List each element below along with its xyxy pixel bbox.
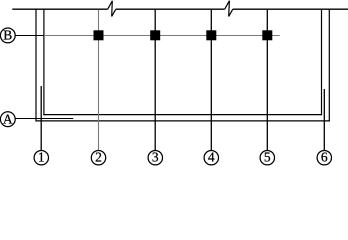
break symbol 1 xyxy=(108,1,116,17)
svg-text:6: 6 xyxy=(321,150,328,165)
grid line 4 xyxy=(210,10,212,151)
svg-text:1: 1 xyxy=(38,150,45,165)
wall left inner line xyxy=(43,9,45,116)
grid line 1 xyxy=(40,86,42,151)
wire top edge segment 2 xyxy=(116,8,225,10)
axis bubble 4 xyxy=(204,150,218,165)
grid line 5 xyxy=(266,10,268,151)
column at B5 xyxy=(262,30,272,40)
column at B2 xyxy=(94,30,104,40)
wall left outer line xyxy=(35,9,37,122)
svg-text:B: B xyxy=(3,27,12,42)
break symbol 2 xyxy=(225,1,233,17)
svg-text:2: 2 xyxy=(95,150,102,165)
svg-text:3: 3 xyxy=(152,150,159,165)
column at B3 xyxy=(150,30,160,40)
axis bubble 5 xyxy=(260,150,274,165)
column at B4 xyxy=(206,30,216,40)
grid line 3 xyxy=(154,10,156,151)
axis bubble 3 xyxy=(148,150,162,165)
wall right outer line xyxy=(328,9,330,122)
wire top edge segment 3 xyxy=(233,8,348,10)
axis B line black stub xyxy=(15,35,44,37)
axis bubble 1 xyxy=(34,150,48,165)
axis bubble B xyxy=(0,27,15,42)
svg-text:4: 4 xyxy=(208,150,215,165)
axis A line xyxy=(15,118,73,120)
axis bubble 6 xyxy=(317,150,331,165)
wall bottom outer line xyxy=(35,120,330,122)
wall bottom inner line xyxy=(43,114,322,116)
axis B line gray xyxy=(44,35,280,37)
axis bubble 2 xyxy=(91,150,105,165)
grid line 2 (gray) xyxy=(98,10,100,151)
wire top edge segment 1 xyxy=(12,8,107,10)
svg-text:5: 5 xyxy=(264,150,271,165)
wall right inner line xyxy=(321,9,323,116)
grid line 6 xyxy=(323,89,325,151)
svg-text:A: A xyxy=(3,111,13,126)
axis bubble A xyxy=(0,111,15,126)
